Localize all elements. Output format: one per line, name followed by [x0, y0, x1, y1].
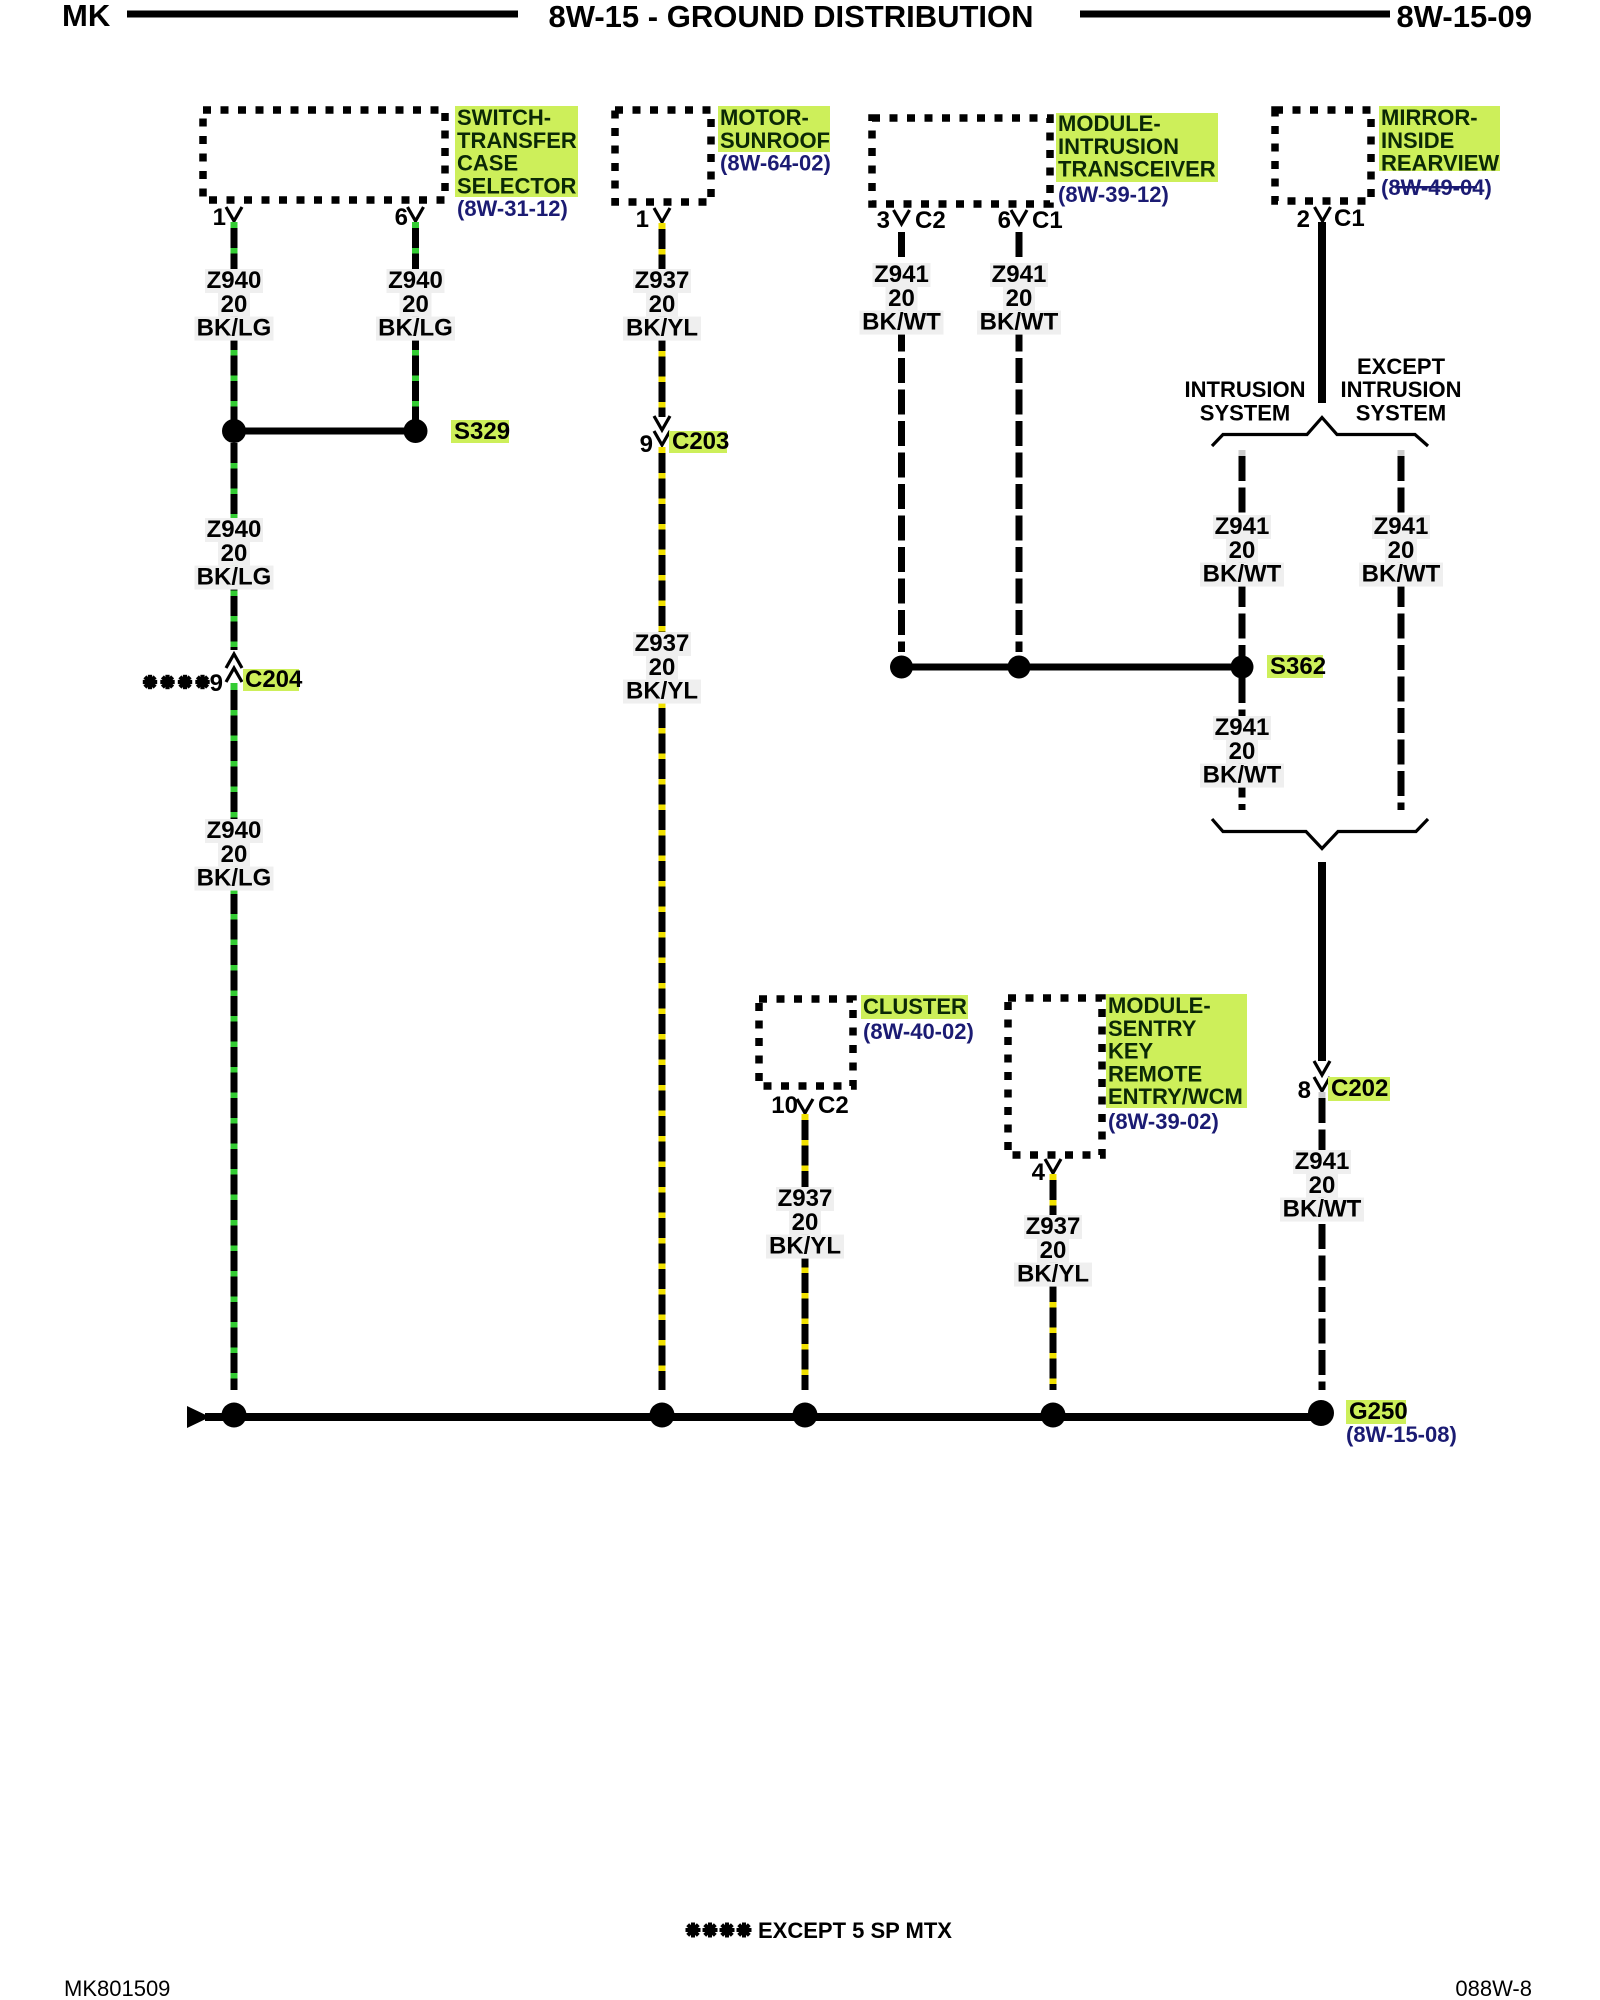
component box MODULE-INTRUSION TRANSCEIVER	[872, 118, 1050, 204]
svg-text:2: 2	[1297, 206, 1310, 233]
svg-text:088W-8: 088W-8	[1455, 1976, 1532, 2000]
svg-text:REARVIEW: REARVIEW	[1381, 151, 1499, 176]
wire Z937 C203 to ground bus segment	[659, 447, 666, 453]
svg-text:SELECTOR: SELECTOR	[457, 173, 577, 198]
label MOTOR-SUNROOF	[718, 106, 830, 152]
wire mirror pin2C1 solid drop	[1318, 222, 1326, 403]
svg-text:9: 9	[640, 431, 653, 458]
svg-text:BK/WT: BK/WT	[1203, 561, 1282, 588]
svg-text:8W-15-09: 8W-15-09	[1397, 0, 1533, 34]
header rule left	[127, 11, 518, 18]
wire Z940 pin6 to S329 segment	[412, 222, 419, 228]
header rule right	[1080, 11, 1390, 18]
label Z941 20 BK/WT (intrusion branch)	[1213, 515, 1271, 539]
svg-text:INTRUSION: INTRUSION	[1058, 134, 1179, 159]
svg-text:BK/WT: BK/WT	[1362, 561, 1441, 588]
svg-text:(8W-31-12): (8W-31-12)	[457, 196, 568, 221]
svg-text:MK: MK	[62, 0, 111, 33]
svg-text:8: 8	[1298, 1077, 1311, 1104]
svg-text:SYSTEM: SYSTEM	[1200, 401, 1290, 426]
svg-text:(8W-64-02): (8W-64-02)	[720, 151, 831, 176]
svg-text:SUNROOF: SUNROOF	[720, 128, 830, 153]
wire Z937 sentry module to ground bus	[1050, 1174, 1057, 1180]
svg-text:(8W-15-08): (8W-15-08)	[1346, 1422, 1457, 1447]
svg-text:4: 4	[1032, 1159, 1046, 1186]
svg-text:SENTRY: SENTRY	[1108, 1016, 1197, 1041]
svg-text:BK/YL: BK/YL	[626, 315, 698, 342]
svg-text:BK/YL: BK/YL	[626, 678, 698, 705]
svg-text:BK/WT: BK/WT	[1203, 762, 1282, 789]
svg-text:(8W-39-02): (8W-39-02)	[1108, 1109, 1219, 1134]
svg-text:C202: C202	[1331, 1075, 1388, 1102]
label Z937 20 BK/YL (sentry drop)	[1024, 1215, 1082, 1239]
wire Z940 C204 to ground bus segment	[231, 683, 238, 690]
svg-text:BK/LG: BK/LG	[378, 315, 453, 342]
label Z940 20 BK/LG (pin1 drop)	[205, 269, 263, 293]
label Z941 20 BK/WT (pin6 drop)	[990, 263, 1048, 287]
svg-text:6: 6	[998, 207, 1011, 234]
wire Z941 intrusion branch upper	[1239, 450, 1246, 456]
svg-text:INSIDE: INSIDE	[1381, 128, 1454, 153]
label G250	[1346, 1400, 1406, 1424]
wire Z940 pin1 to S329 segment	[231, 222, 238, 228]
svg-text:EXCEPT 5 SP MTX: EXCEPT 5 SP MTX	[758, 1918, 952, 1943]
svg-text:BK/LG: BK/LG	[197, 564, 272, 591]
svg-text:1: 1	[213, 204, 226, 231]
wire Z940 S329 to C204 segment	[231, 443, 238, 650]
ground bus junction at x=234	[222, 1403, 247, 1428]
brace merging branches (bottom)	[1212, 819, 1428, 849]
label Z937 20 BK/YL (lower)	[633, 632, 691, 656]
svg-text:S329: S329	[454, 418, 510, 445]
svg-text:C204: C204	[245, 666, 303, 693]
svg-text:8W-15 - GROUND DISTRIBUTION: 8W-15 - GROUND DISTRIBUTION	[548, 0, 1033, 34]
wire solid brace to C202	[1318, 862, 1326, 1061]
svg-text:6: 6	[395, 204, 408, 231]
ground bus junction at x=1053	[1041, 1403, 1066, 1428]
svg-text:C2: C2	[915, 207, 946, 234]
svg-text:10: 10	[771, 1092, 798, 1119]
svg-text:EXCEPT: EXCEPT	[1357, 354, 1446, 379]
svg-text:SYSTEM: SYSTEM	[1356, 401, 1446, 426]
svg-text:C2: C2	[818, 1092, 849, 1119]
label S362	[1267, 655, 1323, 678]
svg-text:CASE: CASE	[457, 151, 518, 176]
label Z940 20 BK/LG (pin6 drop)	[387, 269, 445, 293]
label Z937 20 BK/YL (upper)	[633, 269, 691, 293]
svg-text:MODULE-: MODULE-	[1108, 993, 1211, 1018]
label Z940 20 BK/LG (mid)	[205, 518, 263, 542]
ground bus junction at x=805	[793, 1403, 818, 1428]
brace splitting mirror ground (top)	[1212, 418, 1428, 447]
component box SWITCH-TRANSFER CASE SELECTOR	[203, 110, 445, 200]
wire Z941 pin6C1 to S362	[1016, 232, 1023, 652]
label Z937 20 BK/YL (cluster drop)	[776, 1187, 834, 1211]
wire Z937 pin1 to C203 segment	[659, 223, 666, 229]
svg-text:C1: C1	[1032, 207, 1063, 234]
svg-text:(8W-40-02): (8W-40-02)	[863, 1019, 974, 1044]
ground bus end junction	[1308, 1400, 1334, 1426]
label Z941 20 BK/WT (except branch)	[1372, 515, 1430, 539]
svg-text:MOTOR-: MOTOR-	[720, 105, 809, 130]
label Z941 20 BK/WT (C202 drop)	[1293, 1150, 1351, 1174]
label MIRROR-INSIDE REARVIEW	[1379, 106, 1500, 171]
label SWITCH-TRANSFER CASE SELECTOR	[455, 106, 578, 197]
svg-text:BK/WT: BK/WT	[862, 309, 941, 336]
wire Z941 S362 to brace segment	[1239, 678, 1246, 810]
svg-text:S362: S362	[1270, 653, 1326, 680]
svg-text:MODULE-: MODULE-	[1058, 111, 1161, 136]
svg-text:KEY: KEY	[1108, 1039, 1154, 1064]
label Z941 20 BK/WT (below S362)	[1213, 716, 1271, 740]
svg-text:REMOTE: REMOTE	[1108, 1061, 1202, 1086]
svg-text:G250: G250	[1349, 1398, 1408, 1425]
label MODULE-INTRUSION TRANSCEIVER	[1056, 113, 1218, 182]
svg-text:TRANSFER: TRANSFER	[457, 128, 577, 153]
svg-text:(8W-39-12): (8W-39-12)	[1058, 182, 1169, 207]
label Z940 20 BK/LG (lower)	[205, 819, 263, 843]
svg-text:BK/WT: BK/WT	[980, 309, 1059, 336]
svg-text:1: 1	[636, 206, 649, 233]
svg-text:BK/LG: BK/LG	[197, 865, 272, 892]
label S329	[451, 420, 509, 443]
svg-text:C203: C203	[672, 428, 729, 455]
label Z941 20 BK/WT (pin3 drop)	[873, 263, 931, 287]
ground bus line	[205, 1413, 1331, 1421]
svg-text:MK801509: MK801509	[64, 1976, 170, 2000]
component box MOTOR-SUNROOF	[615, 110, 711, 202]
svg-text:ENTRY/WCM: ENTRY/WCM	[1108, 1084, 1243, 1109]
splice S362	[902, 664, 1243, 671]
ground bus arrow	[187, 1406, 210, 1428]
component box MIRROR-INSIDE REARVIEW	[1275, 110, 1371, 201]
svg-text:BK/YL: BK/YL	[769, 1233, 841, 1260]
ground bus junction at x=662	[650, 1403, 675, 1428]
label CLUSTER	[861, 995, 968, 1019]
svg-text:BK/YL: BK/YL	[1017, 1261, 1089, 1288]
svg-text:SWITCH-: SWITCH-	[457, 105, 551, 130]
svg-text:CLUSTER: CLUSTER	[863, 994, 967, 1019]
svg-text:BK/WT: BK/WT	[1283, 1196, 1362, 1223]
wire Z941 except-intrusion branch	[1398, 450, 1405, 456]
wire Z941 pin3C2 to S362	[898, 232, 905, 652]
svg-text:INTRUSION: INTRUSION	[1341, 377, 1462, 402]
wire Z937 cluster to ground bus	[802, 1114, 809, 1120]
svg-text:BK/LG: BK/LG	[197, 315, 272, 342]
svg-text:9: 9	[210, 670, 223, 697]
svg-text:MIRROR-: MIRROR-	[1381, 105, 1478, 130]
svg-text:3: 3	[877, 207, 890, 234]
splice S329	[234, 428, 416, 435]
component box MODULE-SENTRY KEY REMOTE ENTRY/WCM	[1008, 998, 1102, 1155]
svg-text:INTRUSION: INTRUSION	[1185, 377, 1306, 402]
wire Z941 C202 to ground bus	[1319, 1092, 1326, 1098]
svg-text:TRANSCEIVER: TRANSCEIVER	[1058, 157, 1216, 182]
label MODULE-SENTRY KEY REMOTE ENTRY/WCM	[1106, 994, 1247, 1108]
svg-text:C1: C1	[1334, 205, 1365, 232]
component box CLUSTER	[759, 999, 853, 1086]
